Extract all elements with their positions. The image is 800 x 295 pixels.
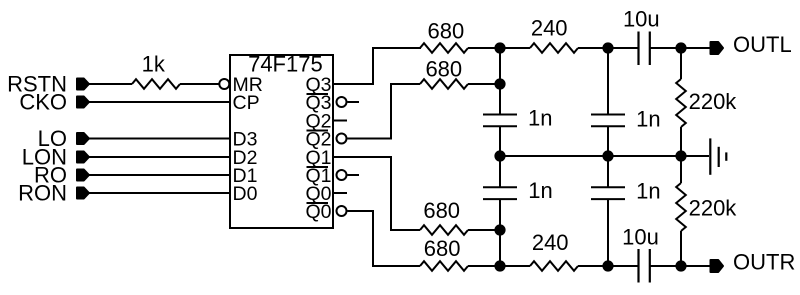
svg-text:220k: 220k — [689, 196, 738, 221]
resistor 240 bottom — [530, 261, 578, 271]
wire Q2 stub — [333, 120, 347, 122]
wire C1n d to bottom rail — [607, 199, 609, 266]
node LON input tag — [77, 152, 89, 163]
wire 220k bottom to OUTR node — [680, 231, 682, 266]
svg-text:220k: 220k — [689, 89, 738, 114]
junction at 500,48 — [495, 43, 504, 52]
svg-text:240: 240 — [531, 15, 568, 40]
op-amp U1 74F175 body — [230, 55, 333, 228]
capacitor 1n d — [591, 187, 625, 199]
svg-text:1n: 1n — [636, 107, 660, 132]
svg-text:D0: D0 — [233, 183, 258, 205]
svg-text:1n: 1n — [636, 179, 660, 204]
svg-text:680: 680 — [428, 19, 465, 44]
resistor 680 top-2 — [420, 79, 468, 89]
resistor 1k — [132, 79, 180, 89]
node RON input tag — [77, 188, 89, 199]
junction at 681,156 — [676, 151, 685, 160]
ground — [710, 138, 726, 174]
pin Q1bar overline — [307, 166, 329, 168]
pin Q2bar overline — [307, 130, 329, 132]
wire 240 bottom to node — [578, 265, 608, 267]
svg-text:10u: 10u — [623, 7, 660, 32]
junction at 500,156 — [495, 151, 504, 160]
pin Q3bar overline — [307, 93, 329, 95]
wire mid rail to C1n c — [499, 156, 501, 187]
wire mid rail to C1n d — [607, 156, 609, 187]
wire node to C 10u bottom — [608, 265, 639, 267]
node CKO input tag — [77, 97, 89, 108]
capacitor 10u top — [639, 32, 650, 66]
svg-text:CKO: CKO — [19, 89, 67, 114]
svg-text:Q0: Q0 — [305, 201, 331, 223]
node OUTR output tag — [711, 260, 724, 272]
resistor 680 top-1 — [420, 43, 468, 53]
wire Q0 stub — [333, 192, 347, 194]
svg-text:680: 680 — [425, 56, 462, 81]
wire 680 bottom-2 to node — [468, 265, 500, 267]
junction at 608,48 — [603, 43, 612, 52]
node RSTN input tag — [77, 79, 89, 90]
wire Q2bar out — [348, 84, 421, 139]
wire mid rail — [500, 155, 709, 157]
wire LO to D3 — [89, 138, 230, 140]
wire 220k top to mid rail — [680, 127, 682, 156]
wire C1n b to mid rail — [607, 126, 609, 156]
svg-text:1n: 1n — [528, 106, 552, 131]
inversion bubble Q2bar — [337, 134, 347, 144]
wire C 10u bottom to OUTR node — [650, 265, 711, 267]
wire 1k to MR bubble — [180, 83, 220, 85]
wire Q3 out — [333, 48, 421, 84]
wire C1n c to bottom node — [499, 199, 501, 266]
wire 680 bottom-1 to node — [468, 229, 500, 231]
capacitor 1n b — [591, 115, 625, 127]
svg-text:1k: 1k — [142, 52, 166, 77]
resistor 220k top — [676, 79, 686, 127]
wire 240 top to node — [578, 47, 608, 49]
junction at 608,266 — [603, 261, 612, 270]
junction at 500,230 — [495, 225, 504, 234]
wire C1n a to mid rail — [499, 126, 501, 156]
wire LON to D2 — [89, 156, 230, 158]
svg-text:OUTR: OUTR — [733, 250, 795, 275]
junction at 500,84 — [495, 79, 504, 88]
wire OUTL node to 220k top — [680, 48, 682, 79]
resistor 680 bottom-1 — [420, 225, 468, 235]
capacitor 1n c — [483, 187, 517, 199]
junction at 681,266 — [676, 261, 685, 270]
svg-text:1n: 1n — [528, 178, 552, 203]
pin Q0bar overline — [307, 202, 329, 204]
wire Q1 out — [333, 157, 420, 230]
wire RSTN to R 1k — [89, 83, 132, 85]
svg-text:10u: 10u — [622, 225, 659, 250]
wire mid rail to 220k bottom — [680, 156, 682, 183]
wire bottom rail 680 to 240 — [500, 265, 530, 267]
wire Q1bar stub — [348, 174, 360, 176]
wire RO to D1 — [89, 174, 230, 176]
svg-text:680: 680 — [423, 198, 460, 223]
resistor 680 bottom-2 — [420, 261, 468, 271]
wire vertical node column x500 upper — [499, 48, 501, 115]
node RO input tag — [77, 170, 89, 181]
junction at 608,156 — [603, 151, 612, 160]
svg-text:OUTL: OUTL — [733, 32, 792, 57]
svg-text:680: 680 — [424, 236, 461, 261]
wire RON to D0 — [89, 192, 230, 194]
capacitor 10u bottom — [639, 249, 650, 283]
junction at 681,48 — [676, 43, 685, 52]
node LO input tag — [77, 133, 89, 144]
node OUTL output tag — [711, 42, 724, 54]
svg-text:74F175: 74F175 — [248, 51, 323, 76]
resistor 220k bottom — [676, 183, 686, 231]
wire Q0bar out — [348, 211, 421, 266]
wire 680 top-2 to node — [468, 83, 500, 85]
capacitor 1n a — [483, 115, 517, 127]
svg-text:CP: CP — [233, 92, 260, 114]
svg-text:240: 240 — [532, 230, 569, 255]
junction at 500,266 — [495, 261, 504, 270]
wire CKO to CP — [89, 101, 230, 103]
wire vertical node column x608 upper — [607, 48, 609, 115]
inversion bubble Q0bar — [337, 206, 347, 216]
inversion bubble Q1bar — [337, 170, 347, 180]
inversion bubble Q3bar — [337, 97, 347, 107]
wire Q3bar stub — [348, 101, 360, 103]
svg-text:RON: RON — [18, 180, 67, 205]
resistor 240 top — [530, 43, 578, 53]
wire 680 top-1 to node — [468, 47, 530, 49]
wire C 10u top to OUTL node — [650, 47, 711, 49]
inversion bubble MR — [219, 79, 229, 89]
wire node to C 10u top — [608, 47, 639, 49]
